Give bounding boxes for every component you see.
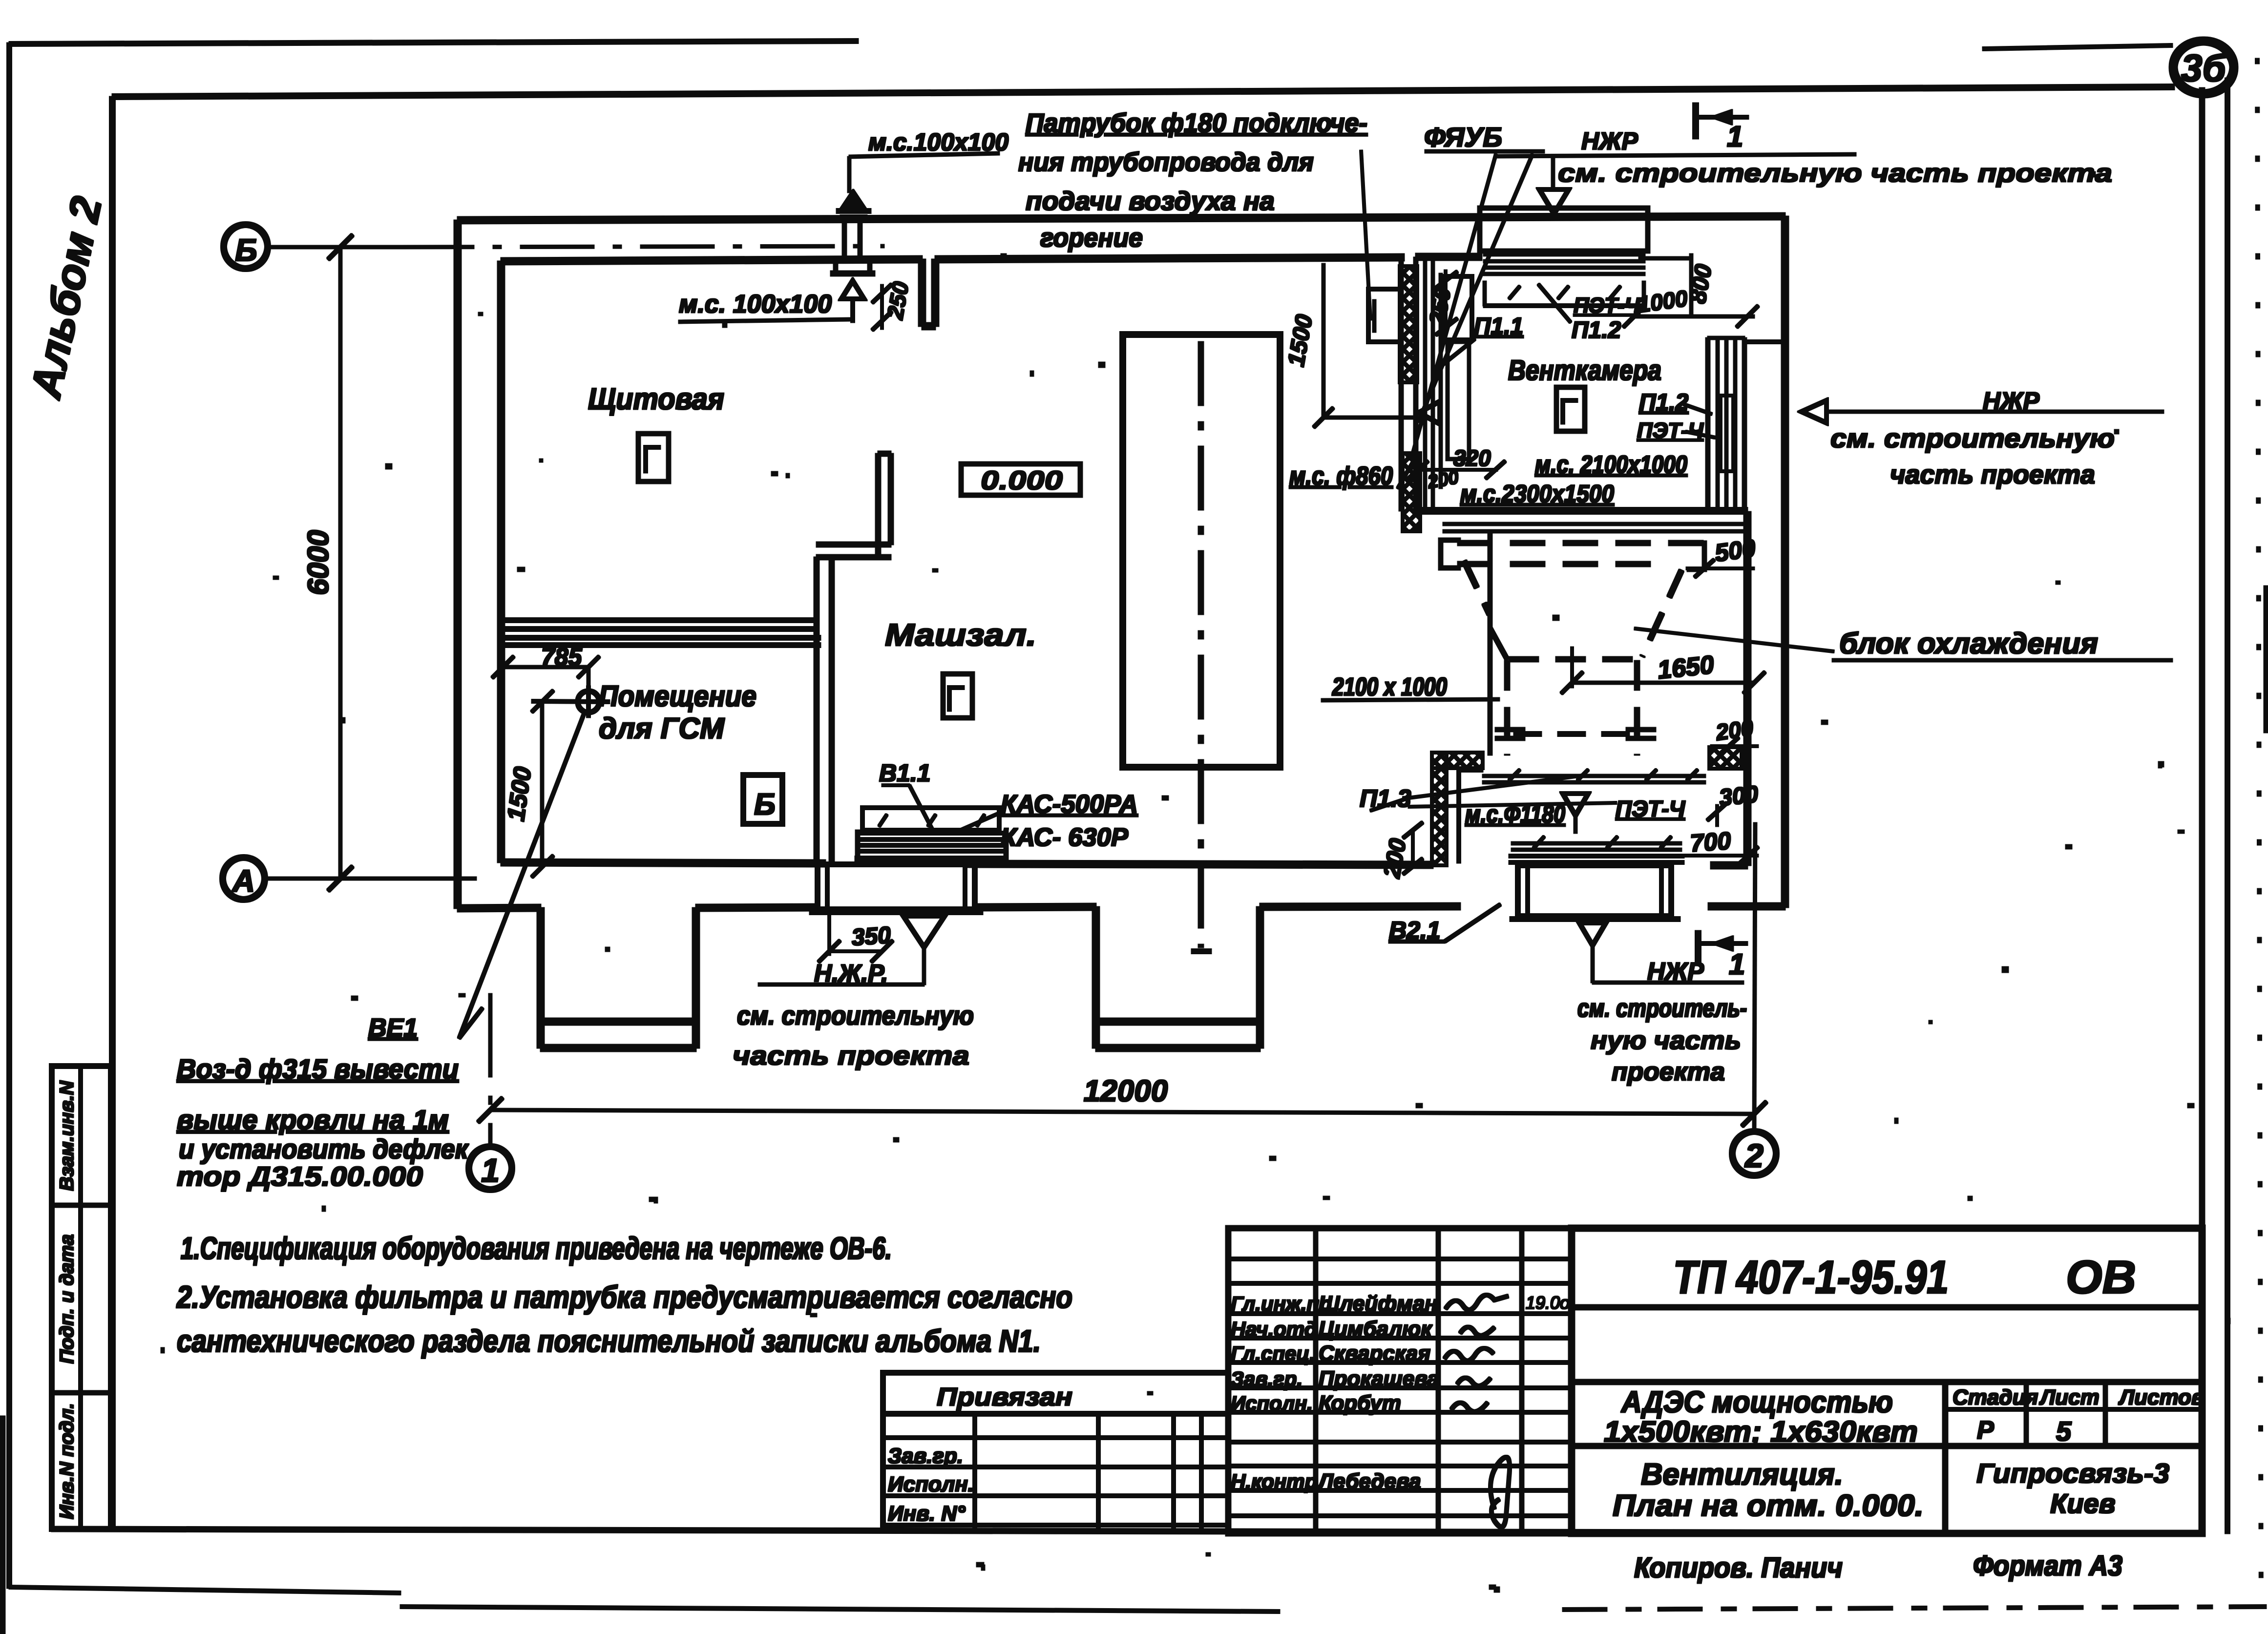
inner drawing frame top xyxy=(112,87,2174,97)
flange caps on lower duct xyxy=(1495,728,1525,732)
leader В2.1 xyxy=(1389,940,1445,943)
svg-text:НЖР: НЖР xyxy=(1983,387,2039,415)
cooling block dashed lower rect xyxy=(1509,657,1642,662)
svg-text:Вентиляция.: Вентиляция. xyxy=(1641,1458,1843,1491)
leader Патрубок to filter xyxy=(1361,150,1370,320)
fan unit В1.1 upper connection box xyxy=(862,808,999,830)
svg-text:м.с.2300х1500: м.с.2300х1500 xyxy=(1460,480,1614,507)
signature squiggles xyxy=(1445,1295,1510,1527)
svg-text:2100 х 1000: 2100 х 1000 xyxy=(1332,673,1447,701)
svg-text:Исполн.: Исполн. xyxy=(888,1472,974,1496)
svg-text:ния трубопровода для: ния трубопровода для xyxy=(1018,147,1314,177)
П1.2 supply stack in right niche xyxy=(1706,338,1710,510)
axis circle Б xyxy=(224,225,268,269)
wire: foundation tab 1 below wall xyxy=(537,908,544,1048)
svg-text:Щитовая: Щитовая xyxy=(588,382,724,416)
svg-text:Машзал.: Машзал. xyxy=(885,617,1036,652)
svg-text:Подп. и дата: Подп. и дата xyxy=(56,1235,78,1364)
dimension 500 tick xyxy=(1686,567,1754,570)
generator set outline in mashzal xyxy=(1123,335,1280,767)
leader В1.1 label xyxy=(909,785,933,830)
svg-text:П1.2: П1.2 xyxy=(1572,317,1621,343)
axis line 2 (vertical) xyxy=(1754,823,1755,1133)
svg-text:м.с.100х100: м.с.100х100 xyxy=(868,128,1008,156)
svg-text:Инв.N подл.: Инв.N подл. xyxy=(56,1403,78,1519)
svg-text:для ГСМ: для ГСМ xyxy=(599,712,725,745)
svg-text:6000: 6000 xyxy=(302,530,335,595)
svg-text:КАС- 630Р: КАС- 630Р xyxy=(1001,823,1128,852)
solid transition diagonal xyxy=(1490,628,1507,659)
wire: exterior wall top inner line xyxy=(501,259,922,261)
dimension 320/200 xyxy=(1417,469,1497,471)
svg-text:П1.3: П1.3 xyxy=(1360,785,1411,812)
leader П1.2 louver xyxy=(1538,284,1571,322)
svg-text:часть проекта: часть проекта xyxy=(733,1041,969,1070)
В2.1 chamber outline xyxy=(1457,770,1461,863)
svg-text:ВЕ1: ВЕ1 xyxy=(368,1014,418,1042)
В2.1 chamber hatched corner xyxy=(1432,753,1483,768)
wire: exterior wall bottom inner line segments xyxy=(501,862,825,863)
svg-text:Формат А3: Формат А3 xyxy=(1973,1550,2122,1582)
axis line Б (dash-dot) xyxy=(266,246,400,249)
section symbol 1 (top) xyxy=(1693,103,1699,139)
leader for upper МС100х100 label xyxy=(848,157,851,192)
svg-text:0.000: 0.000 xyxy=(981,466,1063,495)
svg-text:Гл.инж.пр: Гл.инж.пр xyxy=(1231,1292,1332,1315)
svg-text:КАС-500РА: КАС-500РА xyxy=(1001,790,1138,818)
П1.1 duct verticals against left wall xyxy=(1424,261,1427,508)
ventkamera floor wall (thick) xyxy=(1416,508,1747,514)
inner drawing frame bottom xyxy=(52,1529,2204,1533)
section symbol 1 (bottom) xyxy=(1696,931,1701,963)
svg-text:Корбут: Корбут xyxy=(1319,1391,1401,1415)
wire: exterior wall right outer line xyxy=(1782,216,1788,907)
svg-text:см. строительную: см. строительную xyxy=(1830,424,2115,453)
ventkamera left wall lines xyxy=(1399,257,1403,511)
ФЯУБ leaders xyxy=(1411,154,1496,460)
svg-text:Гл.спец.: Гл.спец. xyxy=(1231,1342,1315,1365)
svg-text:часть проекта: часть проекта xyxy=(1890,460,2095,489)
svg-text:2.Установка фильтра и патру: 2.Установка фильтра и патрубка предусмат… xyxy=(176,1279,1072,1315)
drain funnel below В1.1 xyxy=(903,916,945,947)
level mark 0.000 xyxy=(961,464,1080,495)
duct 2100x1000 solid vertical xyxy=(1488,532,1492,755)
roof stack duct through wall xyxy=(842,218,846,257)
cooling block dashed top duct xyxy=(1458,541,1703,545)
dimension 1000/800 cluster xyxy=(1634,315,1754,318)
AXES xyxy=(223,225,1776,1190)
dimension 250 at stack xyxy=(881,285,883,329)
svg-text:5: 5 xyxy=(2056,1416,2072,1446)
wire: step wall jog horizontal xyxy=(817,542,891,547)
svg-text:сантехнического раздела пояс: сантехнического раздела пояснительной за… xyxy=(177,1323,1041,1359)
svg-text:П1.2: П1.2 xyxy=(1639,390,1689,416)
svg-text:320: 320 xyxy=(1453,445,1491,471)
svg-text:м.с. ф860: м.с. ф860 xyxy=(1289,462,1393,490)
main title block xyxy=(1572,1228,2202,1533)
wire: exterior wall top outer line xyxy=(458,216,1785,220)
В2.1 silencer layers xyxy=(1512,842,1681,845)
leader МС ф860 xyxy=(1398,463,1412,488)
В2.1 inlet grille lines xyxy=(1483,775,1705,777)
cooling block right bracket xyxy=(1687,543,1704,569)
svg-text:500: 500 xyxy=(1713,534,1758,567)
svg-text:ПЭТ-Ч: ПЭТ-Ч xyxy=(1574,293,1640,317)
svg-text:подачи воздуха на: подачи воздуха на xyxy=(1026,187,1275,216)
wire: foundation tab 2 below wall xyxy=(1092,907,1099,1048)
svg-text:Лебедева: Лебедева xyxy=(1317,1469,1421,1493)
outer sheet border left xyxy=(7,43,12,1588)
SIDEBAR xyxy=(52,1066,111,1529)
svg-text:ПЭТ-Ч: ПЭТ-Ч xyxy=(1637,419,1704,442)
inner drawing frame left xyxy=(110,97,115,1529)
svg-text:Н.Ж.Р.: Н.Ж.Р. xyxy=(814,960,888,987)
svg-text:Скварская: Скварская xyxy=(1319,1341,1430,1365)
roof stack lower tee symbol xyxy=(836,258,848,262)
axis circle А xyxy=(223,858,265,900)
svg-text:700: 700 xyxy=(1689,827,1732,857)
svg-text:В2.1: В2.1 xyxy=(1389,917,1441,944)
svg-text:Гипросвязь-3: Гипросвязь-3 xyxy=(1976,1458,2169,1488)
outer sheet border top (partial scan) xyxy=(9,41,858,44)
ВЕ1 duct symbol (circle with cross) in GSM room xyxy=(578,691,599,712)
svg-text:1: 1 xyxy=(1727,120,1743,153)
svg-text:АДЭС мощностью: АДЭС мощностью xyxy=(1620,1385,1893,1419)
svg-text:19.0о: 19.0о xyxy=(1526,1293,1570,1313)
wire: exterior wall right inner line xyxy=(1744,512,1751,865)
svg-text:Цимбалюк: Цимбалюк xyxy=(1319,1317,1433,1341)
dimension 1500 xyxy=(541,701,544,867)
НЖР arrow right xyxy=(1802,400,1827,423)
П1.3 drain funnel xyxy=(1563,794,1588,816)
EQUIP-LEFT xyxy=(459,153,1008,1038)
wire: GSM room top wall (double line) xyxy=(501,636,820,640)
svg-text:Копиров. Панич: Копиров. Панич xyxy=(1634,1552,1843,1584)
svg-text:Прокашева: Прокашева xyxy=(1319,1367,1439,1391)
svg-text:проекта: проекта xyxy=(1612,1058,1725,1086)
VENTKAMERA xyxy=(1314,103,2163,963)
svg-text:Лист: Лист xyxy=(2039,1385,2100,1409)
svg-text:ОВ: ОВ xyxy=(2066,1251,2136,1303)
sheet number circle 3б xyxy=(2173,41,2234,94)
top-right short line to sheet number xyxy=(1983,45,2172,49)
leader for lower МС100х100 label xyxy=(679,319,850,322)
dimension 785 xyxy=(503,666,588,669)
svg-text:3б: 3б xyxy=(2181,46,2226,89)
leader П1.1 xyxy=(1436,339,1475,370)
svg-text:Патрубок ф180 подключе-: Патрубок ф180 подключе- xyxy=(1026,108,1367,138)
outer sheet border bottom (skewed scan line) xyxy=(9,1587,400,1593)
svg-text:м.с. 100х100: м.с. 100х100 xyxy=(679,290,832,318)
leader П1.2 right xyxy=(1684,404,1712,414)
П1.1 intake arrow from mashzal with 1500 dim xyxy=(1322,264,1325,418)
door symbol Б in ГСМ room xyxy=(743,775,782,824)
svg-text:1.Спецификация оборудования: 1.Спецификация оборудования приведена на… xyxy=(181,1231,892,1266)
cooling block dashed diagonals xyxy=(1464,561,1490,614)
ventkamera left wall hatch lower xyxy=(1403,453,1420,531)
svg-text:Стадия: Стадия xyxy=(1953,1385,2038,1409)
svg-text:Воз-д ф315 вывести: Воз-д ф315 вывести xyxy=(177,1053,459,1084)
svg-text:Исполн.: Исполн. xyxy=(1231,1392,1313,1415)
svg-text:Инв. N°: Инв. N° xyxy=(888,1502,966,1526)
svg-text:ТП 407-1-95.91: ТП 407-1-95.91 xyxy=(1673,1251,1949,1303)
svg-text:А: А xyxy=(231,863,255,899)
svg-text:Зав.гр.: Зав.гр. xyxy=(1231,1367,1302,1390)
svg-text:В1.1: В1.1 xyxy=(879,759,931,787)
stamp sidebar box xyxy=(52,1066,111,1529)
svg-text:Взам.инв.N: Взам.инв.N xyxy=(56,1080,78,1191)
НЖР arrow top xyxy=(1497,154,1856,156)
door symbol Г in Машзал xyxy=(943,674,972,718)
svg-text:м.с. 2100х1000: м.с. 2100х1000 xyxy=(1535,451,1687,478)
inner drawing frame right (double line) xyxy=(2200,88,2205,1533)
dimension line 6000 (vertical) xyxy=(339,247,342,879)
svg-text:горение: горение xyxy=(1040,223,1143,252)
svg-text:НЖР: НЖР xyxy=(1647,958,1704,985)
svg-text:Н.контр: Н.контр xyxy=(1231,1470,1317,1493)
fan unit В1.1 box below wall xyxy=(818,864,975,909)
dimension 200 tick right xyxy=(1711,745,1758,748)
WALLS xyxy=(458,216,1785,1048)
П1.1 filter box outside wall xyxy=(1368,289,1400,342)
svg-text:1: 1 xyxy=(1729,948,1745,981)
П1.1 unit box xyxy=(1444,276,1472,340)
door symbol Г in ventkamera xyxy=(1556,387,1585,431)
axis circle 1 xyxy=(469,1147,512,1190)
door symbol Г in Щитовая xyxy=(638,434,669,482)
svg-text:Шлейфман: Шлейфман xyxy=(1319,1292,1438,1316)
axis line 1 (dash-dot vertical) xyxy=(489,994,492,1149)
В2.1 box below wall xyxy=(1518,865,1671,916)
svg-text:Б: Б xyxy=(754,788,776,821)
svg-text:Киев: Киев xyxy=(2050,1488,2116,1519)
svg-text:см. строительную: см. строительную xyxy=(737,1001,974,1030)
ventkamera left wall hatch upper xyxy=(1400,266,1417,382)
roof stack МС100х100 flag symbol top xyxy=(843,192,863,207)
svg-text:Нач.отд: Нач.отд xyxy=(1231,1318,1317,1341)
svg-text:см. строительную часть проек: см. строительную часть проекта xyxy=(1558,159,2112,188)
dimension 250 left of ventkamera xyxy=(1445,270,1447,326)
leader блок охлаждения xyxy=(1635,628,1834,651)
TITLEBLOCK xyxy=(883,1228,2202,1533)
wire: exterior wall bottom outer line segments xyxy=(458,908,541,908)
svg-text:200: 200 xyxy=(1714,715,1755,745)
signature table grid xyxy=(1228,1228,1572,1533)
svg-text:Б: Б xyxy=(235,232,257,268)
svg-text:1650: 1650 xyxy=(1656,650,1715,685)
svg-text:Помещение: Помещение xyxy=(599,680,756,712)
svg-text:НЖР: НЖР xyxy=(1581,127,1638,155)
dimension 1650 xyxy=(1571,647,1574,688)
wire: generator centerline (dash-dot) xyxy=(1198,342,1203,947)
svg-text:12000: 12000 xyxy=(1084,1074,1168,1108)
wire: GSM / mashzal partition vertical (double) xyxy=(814,557,819,863)
wire: exterior wall left inner line xyxy=(498,261,504,862)
svg-text:300: 300 xyxy=(1718,781,1760,811)
wire: door jamb at top wall opening xyxy=(919,259,925,326)
svg-text:1х500квт; 1х630квт: 1х500квт; 1х630квт xyxy=(1604,1415,1918,1448)
wire: exterior wall left outer line xyxy=(454,220,461,908)
louver intake unit at top wall xyxy=(1480,208,1648,251)
svg-text:План на отм. 0.000.: План на отм. 0.000. xyxy=(1613,1489,1924,1523)
leader ПЭТ-Ч right xyxy=(1686,432,1715,438)
svg-text:Венткамера: Венткамера xyxy=(1508,355,1661,386)
wire: partition wall under Shchitovaya (double line) xyxy=(501,618,817,623)
svg-text:2: 2 xyxy=(1744,1137,1764,1174)
leader КАС-500РА xyxy=(955,814,998,833)
svg-text:Привязан: Привязан xyxy=(937,1383,1072,1411)
svg-text:блок охлаждения: блок охлаждения xyxy=(1839,627,2098,660)
svg-text:см. строитель-: см. строитель- xyxy=(1577,994,1747,1023)
привязан table box xyxy=(883,1373,1228,1414)
COOLING xyxy=(1370,532,2172,983)
fan unit В1.1 silencer layers xyxy=(858,832,1006,835)
axis circle 2 xyxy=(1732,1131,1776,1175)
dimension 700 line xyxy=(1670,855,1758,857)
svg-text:Зав.гр.: Зав.гр. xyxy=(888,1444,963,1468)
dimension 350 xyxy=(828,909,831,955)
cooling block left bracket xyxy=(1441,540,1460,568)
svg-text:выше кровли на 1м: выше кровли на 1м xyxy=(177,1104,449,1135)
outer sheet border right (broken dotted scan edge) xyxy=(2257,59,2261,1621)
leader from ВЕ1 symbol to ВЕ1 note xyxy=(459,711,585,1038)
svg-text:ПЭТ-Ч: ПЭТ-Ч xyxy=(1616,796,1686,821)
svg-text:тор Д315.00.000: тор Д315.00.000 xyxy=(177,1161,423,1192)
В2.1 drain funnel below xyxy=(1579,923,1606,945)
svg-text:350: 350 xyxy=(851,922,892,950)
wire: step wall upper vertical (double) with cap xyxy=(876,454,881,557)
dimension 300 tick xyxy=(1716,805,1719,826)
svg-text:м.с.Ф1180: м.с.Ф1180 xyxy=(1465,800,1565,828)
svg-text:Листов: Листов xyxy=(2118,1385,2205,1409)
svg-text:ФЯУБ: ФЯУБ xyxy=(1424,122,1502,152)
svg-text:1: 1 xyxy=(481,1152,500,1189)
axis line А xyxy=(262,877,476,880)
svg-text:785: 785 xyxy=(541,643,583,670)
dimension line 12000 (horizontal) xyxy=(490,1110,1754,1114)
svg-text:и установить дефлек: и установить дефлек xyxy=(179,1133,469,1164)
svg-text:П1.1: П1.1 xyxy=(1474,314,1523,339)
leaders П1.3 xyxy=(1408,775,1582,798)
svg-text:ную часть: ную часть xyxy=(1591,1026,1741,1055)
svg-text:Р: Р xyxy=(1977,1416,1994,1445)
